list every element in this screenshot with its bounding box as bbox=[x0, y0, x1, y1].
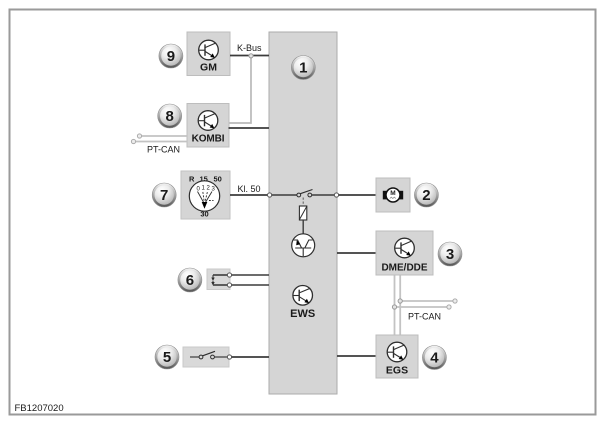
svg-text:50: 50 bbox=[214, 175, 222, 184]
EGS transmission control box (item 4) bbox=[376, 335, 418, 378]
svg-text:DME/DDE: DME/DDE bbox=[381, 263, 427, 274]
svg-text:5: 5 bbox=[163, 349, 171, 366]
starter relay contact inside EWS bbox=[272, 190, 339, 198]
badge 7 bbox=[152, 183, 176, 207]
PT-CAN twisted pair at KOMBI bbox=[131, 134, 187, 144]
EWS control module main box (item 1) bbox=[269, 32, 337, 394]
badge 3 bbox=[438, 242, 462, 266]
DME/DDE engine control box (item 3) bbox=[376, 231, 433, 275]
net label Kl.50 bbox=[238, 184, 261, 194]
svg-text:Kl. 50: Kl. 50 bbox=[238, 184, 261, 194]
svg-text:PT-CAN: PT-CAN bbox=[147, 145, 180, 155]
EWS icon with label bbox=[290, 286, 315, 321]
PT-CAN pair DME/DDE to EGS bbox=[395, 276, 401, 336]
relay coil bbox=[299, 206, 306, 220]
wire K-Bus: GM to EWS box bbox=[230, 55, 269, 57]
badge 4 bbox=[422, 346, 446, 370]
svg-text:PT-CAN: PT-CAN bbox=[408, 312, 441, 322]
wire KOMBI to EWS box bbox=[229, 127, 270, 129]
svg-text:8: 8 bbox=[166, 108, 174, 125]
badge 6 bbox=[178, 268, 202, 292]
wire K-Bus gray branch to KOMBI bbox=[229, 54, 254, 123]
svg-text:KOMBI: KOMBI bbox=[192, 134, 225, 145]
svg-text:3: 3 bbox=[446, 246, 454, 263]
badge 5 bbox=[155, 345, 179, 369]
svg-text:9: 9 bbox=[167, 48, 175, 65]
wires ring antenna to EWS box bbox=[213, 273, 269, 287]
svg-text:M: M bbox=[390, 190, 395, 197]
svg-text:EWS: EWS bbox=[290, 308, 315, 320]
svg-text:1: 1 bbox=[299, 60, 307, 77]
starter motor box (item 2) bbox=[376, 178, 410, 212]
svg-text:K-Bus: K-Bus bbox=[237, 43, 262, 53]
net label PT-CAN right bbox=[408, 312, 441, 322]
svg-text:R: R bbox=[189, 175, 195, 184]
wire Kl.50 ignition switch to EWS box bbox=[230, 193, 272, 197]
badge 8 bbox=[158, 104, 182, 128]
wire relay coil to transistor bbox=[302, 220, 304, 234]
KOMBI instrument cluster box (item 8) bbox=[187, 104, 229, 148]
net label PT-CAN left bbox=[147, 145, 180, 155]
svg-text:7: 7 bbox=[160, 187, 168, 204]
ring antenna connector (item 6) bbox=[207, 269, 230, 290]
switch box (item 5) bbox=[183, 347, 229, 367]
svg-text:4: 4 bbox=[430, 350, 439, 367]
driver transistor circle bbox=[292, 234, 315, 257]
dashed actuation link bbox=[302, 198, 304, 207]
wire EWS to starter bbox=[339, 194, 376, 196]
badge 2 bbox=[414, 183, 438, 207]
part number FB1207020 bbox=[15, 403, 64, 414]
svg-text:EGS: EGS bbox=[386, 365, 408, 377]
wire switch 5 to EWS box bbox=[227, 355, 269, 359]
svg-text:FB1207020: FB1207020 bbox=[15, 403, 64, 414]
svg-text:2: 2 bbox=[422, 187, 430, 204]
wire EWS to EGS bbox=[337, 355, 376, 357]
PT-CAN stub wires with terminals bbox=[392, 299, 457, 309]
svg-text:30: 30 bbox=[200, 210, 208, 219]
ignition switch box (item 7) bbox=[181, 171, 230, 219]
net label K-Bus bbox=[237, 43, 262, 53]
wire EWS to DME/DDE bbox=[337, 252, 376, 254]
badge 1 bbox=[291, 56, 315, 80]
badge 9 bbox=[159, 44, 183, 68]
svg-text:GM: GM bbox=[200, 62, 217, 74]
GM general module box (item 9) bbox=[187, 32, 230, 76]
svg-text:6: 6 bbox=[186, 272, 194, 289]
